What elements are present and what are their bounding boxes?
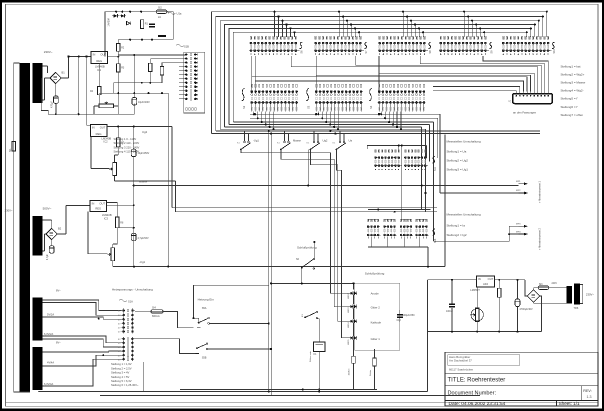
wire feed to IC2 [87, 57, 91, 126]
rotary switch block S4 [379, 84, 380, 87]
wire bottom bus B6 [233, 121, 433, 123]
svg-text:+ Messinstrument 2: + Messinstrument 2 [539, 228, 542, 250]
transformer TR1 secondary winding 500V bar [33, 216, 43, 256]
wire inter-row link 4 [483, 56, 548, 92]
wire bus loop A6 [233, 32, 527, 122]
LED LED4 kathode [350, 320, 353, 323]
svg-text:IN: IN [92, 125, 95, 129]
svg-text:6,3V/4A: 6,3V/4A [44, 382, 53, 386]
svg-text:8V~: 8V~ [56, 341, 61, 345]
svg-text:Anode: Anode [371, 292, 380, 296]
wire Ua rail right riser [444, 135, 446, 267]
wire bottom bus B5 [229, 124, 430, 126]
wire S6 top contact to rail [313, 242, 315, 259]
wire measurement feed [440, 192, 519, 194]
LED LED5 g1 [350, 336, 353, 339]
svg-text:240V: 240V [552, 283, 558, 285]
svg-text:5V/2A: 5V/2A [47, 313, 54, 317]
svg-text:S2: S2 [242, 105, 246, 109]
svg-text:8V~: 8V~ [56, 289, 61, 293]
svg-text:S6: S6 [300, 50, 304, 54]
wire C1 ground rail [41, 78, 134, 114]
wire drops to bottom buses [143, 362, 145, 392]
svg-text:+ Messinstrument 1: + Messinstrument 1 [539, 181, 542, 203]
diode D1 1N4004 [114, 14, 118, 17]
svg-text:Heizung Ein: Heizung Ein [198, 298, 215, 302]
svg-text:Stellung3 = Masse: Stellung3 = Masse [561, 81, 586, 85]
svg-text:S8: S8 [428, 50, 432, 54]
connector J1 An den Fassungen [513, 94, 553, 104]
svg-text:S1B: S1B [184, 45, 189, 49]
svg-text:Stellung6 = f': Stellung6 = f' [561, 105, 579, 109]
svg-text:MP1: MP1 [516, 181, 521, 183]
wire inter-row link 7 [252, 56, 527, 92]
wire bottom bus 1 [39, 391, 428, 393]
wire Masse horizontal to meter terminals [134, 185, 519, 187]
resistor R4 [98, 87, 101, 95]
rotary switch block S12 [404, 150, 406, 152]
svg-text:S3: S3 [306, 105, 310, 109]
rotary switch block S11 [375, 150, 377, 152]
rotary switch block S3 [316, 84, 317, 87]
resistor R3 [117, 64, 120, 72]
svg-text:S5B: S5B [202, 357, 207, 360]
svg-text:Stellung2 = Ig2: Stellung2 = Ig2 [447, 233, 467, 237]
border frame outer black bars [0, 0, 604, 3]
wire feeds to blocks S11 S12 [367, 146, 426, 150]
svg-text:Stellung 2 = 2,5V: Stellung 2 = 2,5V [111, 366, 132, 370]
measurement block S13 [367, 219, 369, 221]
wire node to regulators [69, 56, 92, 58]
transformer TR1 secondary winding 230V bar [33, 63, 43, 103]
wire Masse rail [174, 181, 176, 212]
svg-text:Messstellen Umschaltung: Messstellen Umschaltung [447, 213, 482, 217]
bridge rectifier B2 [46, 228, 57, 239]
wire rail from switch bus down left [268, 131, 270, 392]
svg-text:B2: B2 [58, 227, 62, 231]
svg-text:LM350T: LM350T [470, 288, 480, 292]
svg-text:230V~: 230V~ [586, 292, 595, 296]
svg-text:C13: C13 [397, 320, 402, 322]
wire bridge B2 to IC3 [57, 233, 66, 235]
switch S2D measurement [339, 131, 341, 141]
svg-text:Masse: Masse [293, 139, 301, 143]
svg-text:OUT: OUT [100, 52, 106, 56]
svg-text:1N4004: 1N4004 [108, 17, 111, 26]
svg-text:MP2: MP2 [516, 190, 521, 192]
switch S2C measurement [313, 131, 315, 141]
wire PSU4 rail extends to bridge [495, 279, 525, 281]
potentiometer P3 [111, 248, 115, 261]
wire bottom leakage bus [180, 389, 377, 391]
resistor R20 [352, 356, 355, 363]
wire switch S2D to LED row [337, 149, 351, 338]
diode D2 1N4004 [121, 14, 125, 17]
wire top bus PSU1 [105, 11, 174, 13]
svg-text:4,7µF: 4,7µF [47, 253, 49, 260]
svg-text:1kOhm: 1kOhm [349, 368, 351, 375]
strip S1B contacts [185, 53, 187, 55]
measurement block S16 [416, 219, 418, 221]
capacitor C5 electrolytic [131, 149, 136, 157]
wire switch S2A to LED row [241, 149, 350, 293]
rotary switch block S8 [379, 37, 381, 39]
svg-text:-Ug1: -Ug1 [253, 139, 259, 143]
wire bus turn down 5 [437, 118, 439, 158]
svg-text:S4: S4 [369, 105, 373, 109]
capacitor C4 [149, 24, 155, 26]
wire switch bus upper [216, 130, 540, 132]
relay contact K1a [158, 35, 166, 37]
svg-text:4700µF/40V: 4700µF/40V [520, 308, 533, 311]
svg-text:REV:: REV: [583, 389, 591, 393]
wire ADJ network PSU1 [98, 64, 100, 87]
wire mid bus PSU1 [118, 39, 173, 41]
potentiometer P4 [475, 308, 479, 322]
svg-text:ADJ: ADJ [483, 282, 489, 286]
wire bus turn down 6 [439, 114, 441, 193]
svg-text:2A: 2A [158, 16, 161, 19]
svg-text:Stellung 3 220 - 240V: Stellung 3 220 - 240V [114, 145, 140, 149]
svg-text:IN: IN [93, 52, 96, 56]
svg-text:S9: S9 [489, 50, 493, 54]
svg-text:an den Fassungen: an den Fassungen [513, 111, 537, 115]
wire bus turn down 4 [433, 122, 435, 241]
wire bus loop A5 [229, 28, 531, 124]
terminal arrow Ua meter + [519, 183, 528, 185]
svg-text:TITLE: Roehrentester: TITLE: Roehrentester [448, 378, 506, 384]
terminal arrow Ua meter - [519, 192, 528, 194]
switch S2B measurement [284, 131, 286, 141]
svg-text:SI4: SI4 [152, 307, 156, 310]
wire bottom bus B7 [250, 117, 438, 119]
resistor R21 right [373, 358, 376, 366]
wire inter-row link 6 [316, 56, 530, 92]
svg-text:470µF: 470µF [51, 101, 54, 108]
wire switch S2C to LED row [311, 149, 351, 321]
svg-text:Stellung1 = kat: Stellung1 = kat [561, 65, 581, 69]
wire bottom bus B3 [220, 128, 425, 130]
svg-text:Ug2: Ug2 [142, 130, 148, 134]
svg-text:Date: 04.06.2002 23:31:54: Date: 04.06.2002 23:31:54 [449, 401, 506, 407]
wire output rail Ua [99, 92, 168, 94]
wire bridge B3 top to fuse [534, 288, 539, 290]
switch S5B heater on [196, 347, 198, 349]
relay K1 [314, 342, 325, 352]
wire Ug2 rail [171, 126, 173, 207]
svg-text:S7: S7 [364, 50, 368, 54]
svg-text:Stellung4 = Wg2-: Stellung4 = Wg2- [561, 89, 584, 93]
wire bus loop A3 [220, 21, 539, 130]
svg-text:4,7µF/63V: 4,7µF/63V [138, 237, 149, 240]
terminal arrow current meter + [519, 225, 528, 227]
svg-text:LED5: LED5 [348, 339, 350, 345]
voltage regulator IC1 [91, 51, 108, 63]
wire heater return [135, 339, 199, 354]
wiper S11/S12 [432, 157, 435, 163]
svg-text:Stellung 6 = 1,25-30V~: Stellung 6 = 1,25-30V~ [111, 383, 139, 387]
wire bus loop A4 [225, 25, 535, 127]
svg-text:Ua: Ua [349, 139, 353, 143]
svg-text:Schlußprüfung: Schlußprüfung [297, 246, 317, 250]
wire Ug1 output [112, 261, 114, 267]
wire regulator IC1 output node [108, 56, 119, 58]
wire bridge B1 output [61, 77, 68, 79]
rotary switch block S9 [440, 37, 442, 39]
wire PSU4 top rail [428, 279, 477, 281]
rotary switch block S10 [502, 37, 504, 39]
svg-text:S5A: S5A [202, 307, 207, 310]
wire below F blocks [368, 246, 428, 248]
wire PSU4 left rail [427, 280, 429, 392]
wire row2 to J1 link 9 [433, 87, 520, 92]
svg-text:Stellung 1 = 1,9V: Stellung 1 = 1,9V [111, 362, 132, 366]
svg-text:REG: REG [95, 207, 101, 211]
svg-text:Sheet: 1/1: Sheet: 1/1 [559, 401, 580, 406]
svg-text:Gitter 2: Gitter 2 [371, 306, 381, 310]
wire bridge B3 plus to rail [525, 280, 528, 296]
svg-text:Ug2: Ug2 [323, 139, 328, 143]
svg-text:SI2: SI2 [158, 7, 162, 10]
voltage regulator IC3 [90, 201, 107, 212]
svg-text:S13: S13 [434, 238, 437, 243]
svg-text:LED2: LED2 [348, 293, 350, 299]
capacitor C1 electrolytic [54, 96, 59, 104]
svg-text:TR6: TR6 [574, 307, 579, 310]
svg-text:Stellung 1 0 - 110V: Stellung 1 0 - 110V [114, 137, 137, 141]
svg-text:-Ug1: -Ug1 [139, 260, 146, 264]
wire bus turn down 3 [429, 125, 431, 162]
wire node to strip row1 [118, 54, 185, 56]
svg-text:OUT: OUT [100, 125, 106, 129]
svg-text:100µF/250: 100µF/250 [403, 314, 416, 317]
LED LED2 anode [350, 292, 353, 295]
svg-text:REG: REG [96, 59, 102, 63]
wire to current meter terminals [434, 226, 519, 241]
svg-text:Schlußprüfung: Schlußprüfung [365, 272, 385, 276]
rotary switch block S7 [315, 37, 317, 39]
svg-text:Masse: Masse [139, 179, 148, 183]
fuse SI2 [156, 10, 167, 13]
wires transformer TR6 primary [580, 284, 583, 303]
wire Masse switch to Masse rail [307, 150, 309, 186]
resistor R22 [498, 288, 501, 297]
svg-text:Am Dachstübel 37: Am Dachstübel 37 [449, 359, 472, 363]
resistor R5 [149, 63, 152, 71]
wire inter-row link 8 [255, 56, 523, 92]
svg-text:S11: S11 [434, 166, 437, 171]
capacitor C7 electrolytic [131, 233, 136, 241]
svg-text:10µF/450V: 10µF/450V [138, 152, 150, 155]
LED box outline [355, 283, 400, 350]
wire Ua rail to measurement area [167, 93, 169, 266]
svg-text:Stellung7 = offen: Stellung7 = offen [561, 113, 584, 117]
svg-text:LED4: LED4 [348, 322, 350, 328]
wire primary left terminal [13, 63, 15, 392]
svg-text:Stellung1 = Ia: Stellung1 = Ia [447, 224, 466, 228]
wire bottom bus B4 [225, 126, 422, 128]
wire inter-row link 1 [291, 56, 537, 92]
svg-text:Stellung 4 110 - 240V: Stellung 4 110 - 240V [114, 150, 140, 154]
voltage regulator IC4 LM350T [476, 276, 494, 287]
svg-text:6,3V/2A: 6,3V/2A [44, 332, 53, 336]
resistor R7 [117, 138, 120, 147]
svg-text:Stellung1 = Ua: Stellung1 = Ua [447, 150, 467, 154]
wire rail from switch bus down right [270, 134, 272, 392]
svg-text:Kathode: Kathode [371, 321, 382, 325]
wire inter-row link 3 [420, 56, 544, 92]
resistor R1 [140, 20, 143, 29]
svg-text:IN: IN [478, 277, 481, 281]
rotary switch S1B strip [184, 52, 205, 113]
wire bus loop A1 [212, 12, 547, 134]
measurement block S15 [400, 219, 402, 221]
svg-text:Relais: Relais [370, 369, 372, 376]
wire heater fuse to switch [135, 310, 151, 312]
wiper blocks F [432, 229, 435, 235]
wire bridge B3 minus to ground rail [540, 296, 542, 332]
svg-text:Stellung3 = Ug1: Stellung3 = Ug1 [447, 168, 469, 172]
wire 230V secondary to bridge [43, 65, 48, 67]
svg-text:S1A: S1A [128, 299, 133, 303]
wire bus turn down 2 [425, 129, 427, 212]
terminal arrow current meter - [519, 233, 528, 235]
wire drops from top buses to socket blocks [274, 12, 276, 37]
wire LED chain [353, 283, 355, 289]
wire bottom bus B8 [250, 113, 440, 115]
capacitor C14 100nF [449, 304, 455, 306]
voltage regulator IC2 [90, 124, 107, 136]
svg-text:IN: IN [92, 202, 95, 206]
svg-text:1.3: 1.3 [587, 395, 592, 399]
svg-text:Heizspannungs - Umschaltung: Heizspannungs - Umschaltung [112, 287, 153, 291]
wire PSU4 bottom rail [428, 331, 542, 333]
switch S7 leakage b [304, 317, 306, 319]
svg-text:230V~: 230V~ [44, 50, 53, 54]
svg-text:U1a: U1a [177, 12, 182, 16]
title block [445, 352, 598, 406]
svg-text:MP4: MP4 [516, 231, 521, 233]
rotary switch block S2 [251, 84, 252, 87]
svg-text:Stellung2 = Ug2: Stellung2 = Ug2 [447, 159, 469, 163]
svg-text:Stellung 2 110 - 220V: Stellung 2 110 - 220V [114, 141, 140, 145]
svg-text:S10: S10 [552, 48, 556, 53]
switch S2A measurement [244, 131, 246, 141]
resistor R6 [160, 67, 163, 75]
potentiometer P2 [113, 163, 117, 176]
svg-text:Gitter 1: Gitter 1 [371, 337, 381, 341]
capacitor C13 [397, 314, 403, 316]
svg-text:OUT: OUT [488, 277, 494, 281]
svg-text:4V/4A: 4V/4A [47, 361, 54, 365]
resistor R8 [116, 217, 119, 228]
fuse SI3 [538, 286, 549, 289]
heater winding tap wires [43, 300, 122, 311]
wire fuse to transformer TR6 [549, 287, 567, 289]
resistor R2 [117, 44, 120, 52]
wire leakage top [271, 282, 353, 284]
wire bridge B3 bottom to TR6 [534, 302, 567, 303]
wire inter-row link 2 [356, 56, 541, 92]
capacitor C2 electrolytic [132, 98, 137, 106]
svg-text:10µF/400V: 10µF/400V [138, 101, 150, 104]
LED LED3 g2 [350, 305, 353, 308]
transformer TR1 heater winding B bar [33, 347, 43, 390]
svg-text:Stellung 5 = 6,3V: Stellung 5 = 6,3V [111, 379, 132, 383]
transformer TR1 heater winding A bar [33, 298, 43, 341]
capacitor C6 electrolytic [51, 240, 53, 246]
wire 500V secondary to bridge B2 [43, 219, 52, 221]
svg-text:IC3: IC3 [104, 216, 109, 220]
zener diode D3 [127, 22, 131, 25]
bridge rectifier B1 [50, 72, 61, 83]
svg-text:Stellung2 = Wg2+: Stellung2 = Wg2+ [561, 73, 585, 77]
svg-text:Stellung 3 = 4V: Stellung 3 = 4V [111, 371, 130, 375]
svg-text:Stellung 4 = 5V: Stellung 4 = 5V [111, 375, 130, 379]
fuse SI0 on mains wire [12, 142, 16, 152]
wire bus loop A2 [216, 17, 543, 131]
potentiometer P1 [99, 104, 114, 108]
svg-text:LED3: LED3 [348, 307, 350, 313]
wire R5 R6 bottoms [114, 82, 162, 84]
svg-text:B1: B1 [62, 71, 66, 75]
transformer TR1 primary winding bar [20, 63, 31, 392]
fuse SI1 heater [151, 310, 163, 313]
svg-text:Messstellen Umschaltung: Messstellen Umschaltung [447, 140, 482, 144]
wire bus turn down 1 [421, 127, 423, 210]
wire inter-row link 5 [379, 56, 534, 92]
svg-text:Stellung5 = f': Stellung5 = f' [561, 97, 579, 101]
svg-text:MP3: MP3 [516, 223, 521, 225]
title block address text [448, 355, 520, 366]
measurement block S14 [384, 219, 386, 221]
wire IC2 output bus [107, 125, 172, 127]
wire IC3 out to masse rail [107, 204, 134, 206]
capacitor C15 4700uF [515, 299, 520, 307]
wire switch bus lower [212, 133, 541, 135]
wire drops from blocks to bottom buses [253, 112, 255, 115]
svg-text:66117 Saarbrücken: 66117 Saarbrücken [449, 368, 474, 372]
svg-text:800mA: 800mA [152, 315, 160, 318]
switch S6 leakage [301, 267, 303, 269]
svg-text:IC2: IC2 [104, 140, 109, 144]
svg-text:500V~: 500V~ [43, 206, 52, 210]
wire feeds to blocks F [368, 209, 430, 211]
wire link stubs into row2 blocks [251, 77, 253, 92]
svg-text:REG: REG [96, 132, 102, 136]
wire heater box top [193, 284, 268, 286]
svg-text:OUT: OUT [99, 202, 105, 206]
wire bottom bus 2 [100, 394, 480, 396]
svg-text:230V~: 230V~ [5, 209, 13, 213]
bridge rectifier B3 [527, 290, 539, 302]
transformer TR6 [566, 286, 572, 303]
wire row2 to J1 link 10 [433, 90, 516, 93]
wire switch S2B to LED row [281, 149, 350, 306]
svg-text:Röhre entn.: Röhre entn. [309, 350, 312, 362]
rotary switch block S6 [250, 37, 252, 39]
